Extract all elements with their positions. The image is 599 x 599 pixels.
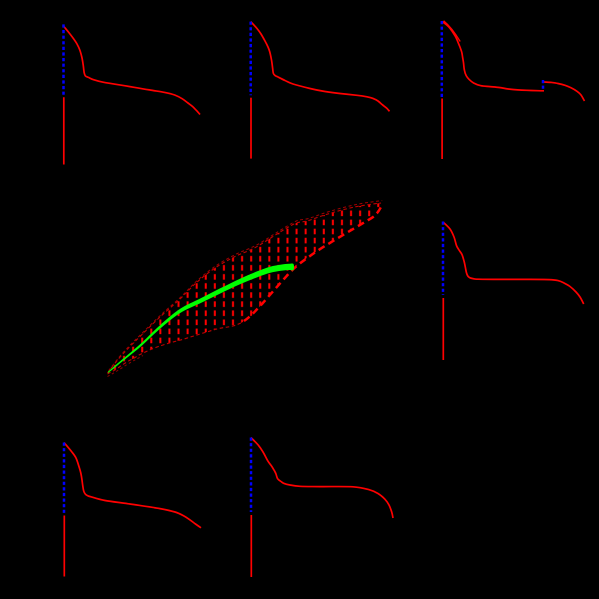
inset middle-right: red vertical line xyxy=(442,298,444,360)
inset top-left: red vertical line xyxy=(63,97,65,164)
lower boundary: bright steep section xyxy=(244,207,381,321)
inset middle-right: blue dotted vertical line xyxy=(442,222,445,296)
central wedge region: hatch fill xyxy=(108,203,382,374)
inset top-left: blue dotted vertical line xyxy=(62,24,65,95)
inset top-right: tail curve after jump xyxy=(544,82,585,101)
inset top-middle: blue dotted vertical line xyxy=(249,22,252,96)
upper boundary: parallel dotted companion xyxy=(109,201,383,371)
inset top-right: small blue dotted jump xyxy=(542,80,545,91)
upper boundary: dark dashed line xyxy=(108,203,382,373)
inset top-right: blue dotted vertical line xyxy=(441,21,444,98)
lower boundary: dark dashed line xyxy=(108,323,243,375)
lower boundary: faint companion near tip xyxy=(108,356,144,377)
green tapered curve xyxy=(108,264,294,374)
inset bottom-middle: red front profile curve xyxy=(251,438,393,519)
inset bottom-left: blue dotted vertical line xyxy=(63,443,66,514)
inset bottom-left: red front profile curve xyxy=(64,443,201,528)
inset bottom-middle: blue dotted vertical line xyxy=(250,438,253,513)
inset top-right: doubled strand at start xyxy=(444,21,461,42)
inset top-middle: red front profile curve xyxy=(251,22,390,112)
inset top-right: red vertical line xyxy=(441,99,443,160)
inset bottom-left: red vertical line xyxy=(63,516,65,577)
inset middle-right: red front profile curve xyxy=(443,222,584,304)
inset top-right: red front profile curve xyxy=(442,21,544,90)
inset top-middle: red vertical line xyxy=(250,98,252,159)
inset top-left: red front profile curve xyxy=(64,26,201,115)
inset bottom-middle: red vertical line xyxy=(250,515,252,577)
